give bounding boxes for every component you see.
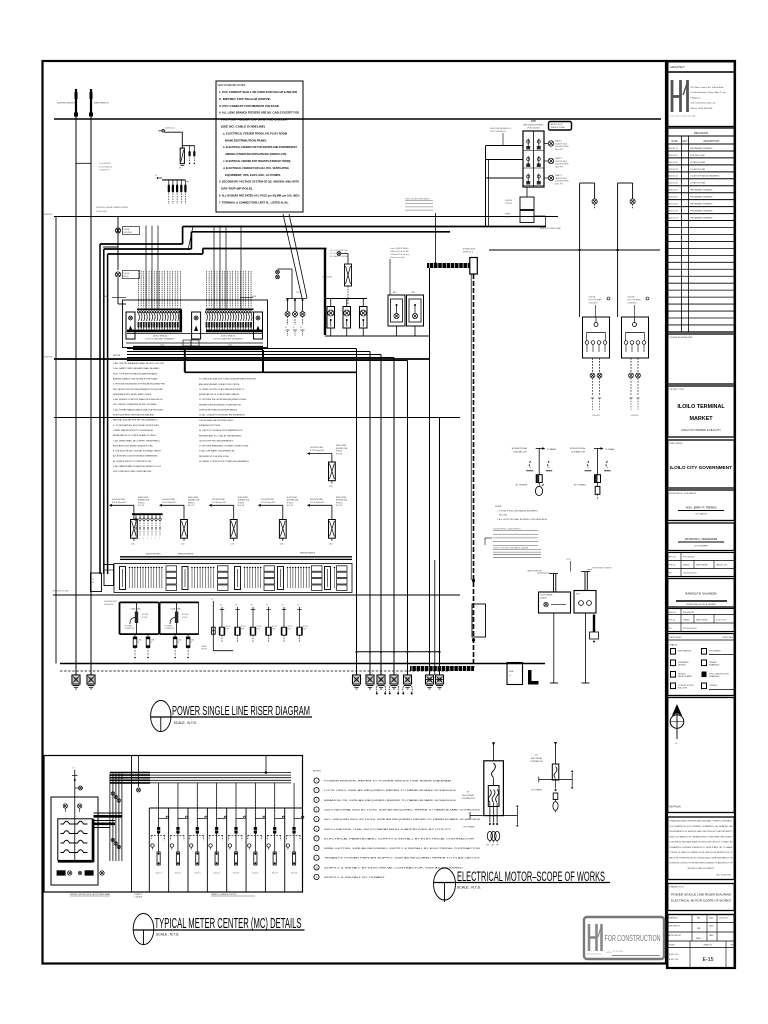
svg-text:(SEE RISER DIAGRAM No. 2): (SEE RISER DIAGRAM No. 2) — [490, 127, 512, 130]
svg-text:ILOILO CITY GOVERNMENT: ILOILO CITY GOVERNMENT — [670, 465, 732, 470]
svg-text:50mm PVC: 50mm PVC — [555, 166, 564, 168]
svg-text:BUSEY RISER: BUSEY RISER — [188, 497, 199, 499]
svg-text:CONTRACTOR: CONTRACTOR — [530, 760, 543, 763]
svg-text:BY ELECTRICAL: BY ELECTRICAL — [512, 447, 528, 450]
svg-text:(EXISTING): (EXISTING) — [124, 232, 133, 234]
svg-text:SMART 2: SMART 2 — [555, 157, 562, 160]
svg-text:6. COORDINATE ALL ELECTRICAL W: 6. COORDINATE ALL ELECTRICAL WORKS WITH — [113, 424, 159, 427]
svg-text:GEN SET 500 kW: GEN SET 500 kW — [551, 124, 564, 126]
svg-text:1000 kVA: 1000 kVA — [589, 296, 597, 299]
svg-text:6: 6 — [316, 829, 317, 831]
svg-text:WIRE GUTTER, SIZE AS REQUIRED,: WIRE GUTTER, SIZE AS REQUIRED, SUPPLY & … — [324, 847, 481, 850]
svg-text:LAND OWNER: LAND OWNER — [670, 442, 683, 445]
svg-text:DATE: DATE — [709, 925, 714, 928]
svg-text:BUSEY RISER: BUSEY RISER — [287, 497, 298, 499]
svg-text:4: 4 — [316, 809, 317, 811]
svg-text:IN 50mm PVC: IN 50mm PVC — [104, 604, 115, 606]
svg-text:2022.12.09: 2022.12.09 — [668, 204, 677, 206]
svg-text:LIGHTING: LIGHTING — [505, 200, 513, 202]
svg-text:BUSEY RISER: BUSEY RISER — [336, 497, 347, 499]
svg-text:6: 6 — [155, 538, 156, 540]
svg-text:GRY ROP (4P POLE).: GRY ROP (4P POLE). — [221, 187, 253, 191]
svg-text:3P 4W+G: 3P 4W+G — [336, 502, 343, 504]
svg-text:DATE: DATE — [709, 934, 714, 937]
svg-text:7: 7 — [159, 538, 160, 540]
svg-text:100AT: 100AT — [138, 639, 142, 642]
svg-text:AND NEW FEEDER CONNECTION POIN: AND NEW FEEDER CONNECTION POINTS. — [199, 383, 240, 386]
svg-text:GF: GF — [155, 175, 157, 177]
svg-text:(BUS DUCT RISER 1600A): (BUS DUCT RISER 1600A) — [540, 227, 561, 230]
svg-text:AMONG OTHER SM APPLIANCES (FRO: AMONG OTHER SM APPLIANCES (FROM LV-B). — [225, 152, 287, 156]
svg-text:SP: SP — [285, 327, 287, 329]
svg-text:ISO. GROUND BUS W/ LUGS, SIZE: ISO. GROUND BUS W/ LUGS, SIZE AS REQUIRE… — [324, 818, 481, 821]
svg-text:RAYMOND C. HERNANDEZ: RAYMOND C. HERNANDEZ — [685, 538, 718, 541]
svg-text:-: - — [685, 197, 686, 199]
svg-text:a r c h i t e c t s + d e s i: a r c h i t e c t s + d e s i g n l a b — [670, 115, 696, 118]
svg-text:-: - — [685, 162, 686, 164]
svg-text:E-15: E-15 — [703, 957, 714, 963]
svg-text:15HP: 15HP — [303, 629, 306, 631]
svg-text:MB: MB — [697, 928, 701, 930]
svg-text:5. ALL POWER PANELBOARDS SHALL: 5. ALL POWER PANELBOARDS SHALL BE PROVID… — [113, 408, 164, 411]
svg-text:WITH EQUIPMENT GROUND BUS BAR: WITH EQUIPMENT GROUND BUS BAR AND — [113, 414, 155, 417]
svg-text:SCHEMATIC: SCHEMATIC — [678, 661, 690, 664]
svg-text:(BUSWAY) 225A: (BUSWAY) 225A — [188, 499, 199, 502]
svg-text:2022.09.12: 2022.09.12 — [668, 148, 677, 150]
svg-text:PRELIMINARY DRAWING: PRELIMINARY DRAWING — [690, 147, 713, 150]
svg-text:BUSEY RISER: BUSEY RISER — [336, 445, 347, 447]
svg-text:FEEDER RISER B: FEEDER RISER B — [300, 553, 316, 555]
svg-text:SCALE : N.T.S.: SCALE : N.T.S. — [174, 721, 197, 725]
svg-text:MOTORS.: MOTORS. — [499, 515, 508, 517]
svg-text:90 C IN 100mm PVC: 90 C IN 100mm PVC — [261, 502, 276, 504]
svg-text:DESCRIPTION: DESCRIPTION — [704, 141, 720, 143]
svg-text:12. PROVIDE PULLBOXES AS REQUI: 12. PROVIDE PULLBOXES AS REQUIRED FOR AL… — [199, 398, 248, 401]
svg-text:Tenant 4: Tenant 4 — [214, 872, 220, 875]
svg-text:ELECTRICAL PANELBOARD, SUPPLY: ELECTRICAL PANELBOARD, SUPPLY & INSTALL … — [324, 837, 475, 840]
svg-text:10. CHECK ACTUAL SITE CONDITIO: 10. CHECK ACTUAL SITE CONDITIONS BETWEEN… — [199, 378, 256, 381]
svg-text:LV SWITCHGEAR: LV SWITCHGEAR — [540, 594, 553, 597]
svg-text:SP1: SP1 — [487, 845, 490, 847]
svg-text:NOTES:: NOTES: — [313, 771, 322, 773]
svg-text:POWER FEEDER, REFER TO POWER S: POWER FEEDER, REFER TO POWER SINGLE LINE… — [324, 780, 451, 783]
svg-text:DRAWING TITLE:: DRAWING TITLE: — [670, 886, 685, 889]
svg-text:100AT: 100AT — [178, 639, 182, 642]
svg-text:in 100mm PVC: in 100mm PVC — [99, 170, 111, 172]
svg-text:14. USE 3.5% VOLTAGE DROP MAXI: 14. USE 3.5% VOLTAGE DROP MAXIMUM FOR — [199, 429, 243, 432]
svg-text:DATE: DATE — [709, 917, 714, 920]
svg-text:-: - — [685, 155, 686, 157]
svg-text:3: 3 — [316, 800, 317, 802]
svg-text:TRANSFORMER PAD: TRANSFORMER PAD — [527, 570, 543, 573]
svg-text:ON 15kV LINE: ON 15kV LINE — [96, 211, 106, 213]
svg-text:2 sets 500 MCM: 2 sets 500 MCM — [99, 162, 111, 165]
svg-text:FOR COMPLETE LOAD COMPUTATIONS: FOR COMPLETE LOAD COMPUTATIONS. — [113, 470, 152, 473]
svg-text:SCALE : N.T.S.: SCALE : N.T.S. — [457, 886, 481, 890]
svg-text:3 SETS OF 4-500 MCM THHN CABLE: 3 SETS OF 4-500 MCM THHN CABLES+1-250MCM — [493, 547, 529, 550]
svg-text:FOR CONSTRUCTION: FOR CONSTRUCTION — [605, 933, 661, 943]
svg-text:ELECTRICAL: ELECTRICAL — [531, 757, 542, 760]
svg-text:3 sets 4-500MCM THHN in: 3 sets 4-500MCM THHN in — [390, 247, 409, 250]
svg-text:2: 2 — [316, 790, 317, 792]
svg-text:EQUIPMENT, UPS, ELEV, ESC, LG: EQUIPMENT, UPS, ELEV, ESC, LG PUMPS. — [225, 173, 281, 177]
svg-text:DRAWINGS: DRAWINGS — [709, 664, 720, 667]
svg-text:2022.12.16: 2022.12.16 — [668, 211, 677, 213]
svg-text:NEUTRAL BUS BAR PER PEC REQUIR: NEUTRAL BUS BAR PER PEC REQUIREMENTS. — [113, 419, 159, 422]
svg-text:INSULATED 600V RATED UNLESS NO: INSULATED 600V RATED UNLESS NOTED. — [113, 444, 154, 447]
svg-text:-: - — [685, 218, 686, 220]
svg-text:PRELIMINARY DRAWING: PRELIMINARY DRAWING — [690, 217, 713, 220]
svg-text:4: 4 — [147, 538, 148, 540]
svg-text:EXISTING: EXISTING — [44, 214, 53, 216]
svg-text:4-350 MCM THHN: 4-350 MCM THHN — [261, 499, 274, 501]
svg-text:15. PROVIDE EMERGENCY POWER CO: 15. PROVIDE EMERGENCY POWER CONNECTIONS — [199, 446, 249, 448]
svg-text:3∅: 3∅ — [282, 604, 285, 607]
svg-text:Philippines: Philippines — [691, 97, 701, 99]
svg-text:3 SETS 4-500 MCM THHN CABLES: 3 SETS 4-500 MCM THHN CABLES — [405, 198, 429, 201]
svg-text:3. PROVIDE GROUNDING SYSTEM AS: 3. PROVIDE GROUNDING SYSTEM AS REQUIRED … — [113, 383, 165, 386]
svg-text:100AT, 3P, 30kA: 100AT, 3P, 30kA — [555, 160, 567, 163]
svg-text:W/ G. KIT: W/ G. KIT — [287, 505, 294, 507]
svg-text:SUPPLY & INSTALL BY TENANT: SUPPLY & INSTALL BY TENANT — [324, 876, 386, 879]
svg-text:RESISTANCE NOT MORE THAN 5 OHM: RESISTANCE NOT MORE THAN 5 OHMS. — [113, 393, 152, 396]
svg-text:LOCATION PLAN: LOCATION PLAN — [690, 168, 706, 171]
svg-text:FEEDER RISER A: FEEDER RISER A — [178, 553, 194, 556]
svg-text:4m Cs 3-500 MCM THHN: 4m Cs 3-500 MCM THHN — [330, 250, 348, 252]
svg-text:2P: 2P — [191, 642, 193, 644]
svg-text:DATE ISSUED: DATE ISSUED — [696, 619, 709, 622]
svg-text:3∅: 3∅ — [211, 598, 214, 601]
svg-text:90 C IN 100mm PVC: 90 C IN 100mm PVC — [162, 502, 177, 504]
svg-text:TENANT'S: TENANT'S — [135, 893, 143, 896]
svg-text:-: - — [685, 211, 686, 213]
svg-text:Tenant 1: Tenant 1 — [156, 872, 162, 875]
svg-text:90 C IN 100mm PVC: 90 C IN 100mm PVC — [112, 502, 127, 504]
svg-text:(100A) (100AT): (100A) (100AT) — [131, 608, 142, 611]
svg-text:LOCATION PLAN: LOCATION PLAN — [690, 161, 706, 164]
svg-text:PROFESSIONAL ELECTRICAL ENGINE: PROFESSIONAL ELECTRICAL ENGINEER — [686, 603, 716, 606]
svg-text:INSTALLATION OF CONDUIT AND CA: INSTALLATION OF CONDUIT AND CABLES. — [199, 393, 240, 396]
svg-text:11: 11 — [316, 877, 318, 879]
svg-text:2022.08.15: 2022.08.15 — [719, 918, 728, 920]
svg-text:FEEDER RUNS EXCEEDING 30 METER: FEEDER RUNS EXCEEDING 30 METERS OR — [199, 404, 241, 406]
svg-text:100AT, 3P, 30kA: 100AT, 3P, 30kA — [555, 177, 567, 180]
svg-text:OUTLET PER PEC REQUIREMENTS.: OUTLET PER PEC REQUIREMENTS. — [199, 440, 234, 442]
svg-text:(EXISTING SERVICE): (EXISTING SERVICE) — [57, 103, 76, 105]
svg-text:AMPERE CAPACITY AS SHOWN IN TH: AMPERE CAPACITY AS SHOWN IN THE PLANS. — [113, 377, 158, 380]
svg-text:AUTHOR OF SAID DOCUMENTS.: AUTHOR OF SAID DOCUMENTS. — [688, 867, 715, 870]
svg-text:2P: 2P — [151, 642, 153, 644]
svg-text:PROJECT TITLE: PROJECT TITLE — [670, 389, 685, 391]
svg-text:(4 POS TO SWBD A BUS TIE BREAK: (4 POS TO SWBD A BUS TIE BREAKER) — [146, 338, 175, 341]
svg-text:TO MC: TO MC — [446, 668, 452, 670]
svg-text:5: 5 — [316, 819, 317, 821]
svg-text:2/F Palma Centre, A.V. Tañedo: 2/F Palma Centre, A.V. Tañedo Blvd. — [691, 86, 725, 89]
svg-text:6. ALL BUSBAR ARE RATED AS 1 P: 6. ALL BUSBAR ARE RATED AS 1 POLE per SQ… — [219, 194, 300, 198]
svg-text:ILOILO CITY: ILOILO CITY — [716, 620, 727, 622]
svg-text:8: 8 — [316, 848, 317, 850]
svg-text:123-456-789-000: 123-456-789-000 — [683, 573, 697, 575]
svg-text:ATS 100A: ATS 100A — [142, 613, 148, 616]
svg-text:HON. JERRY P. TREÑAS: HON. JERRY P. TREÑAS — [686, 505, 717, 510]
svg-text:500kVA: 500kVA — [124, 228, 130, 231]
svg-text:2022.12.23: 2022.12.23 — [668, 218, 677, 220]
svg-text:& 1x250 MCM (G): & 1x250 MCM (G) — [99, 166, 112, 168]
svg-text:2022.10.22: 2022.10.22 — [668, 169, 677, 171]
svg-text:PRELIMINARY DRAWING: PRELIMINARY DRAWING — [690, 203, 713, 206]
svg-text:DRY TYPE XFMR: DRY TYPE XFMR — [589, 300, 603, 302]
svg-text:b. ELECTRICAL FEEDER FOR THE W: b. ELECTRICAL FEEDER FOR THE WATERS AND … — [223, 145, 297, 149]
svg-text:GEN STANDARD NOTES:: GEN STANDARD NOTES: — [218, 84, 247, 87]
svg-text:2022.11.04: 2022.11.04 — [668, 176, 677, 178]
svg-text:c. ELECTRICAL FEEDER FOR TENAN: c. ELECTRICAL FEEDER FOR TENANTS (FROM B… — [223, 159, 291, 163]
svg-text:CONTRACTOR: CONTRACTOR — [461, 797, 475, 800]
svg-text:14HP: 14HP — [288, 629, 291, 631]
svg-text:12HP: 12HP — [257, 629, 260, 631]
svg-text:3: 3 — [143, 538, 144, 540]
svg-text:FOR WHICH THEY ARE MADE IS EXE: FOR WHICH THEY ARE MADE IS EXECUTED OR N… — [670, 841, 734, 844]
svg-text:7: 7 — [316, 838, 317, 840]
svg-text:4. ALL FEEDER CONDUITS SHALL B: 4. ALL FEEDER CONDUITS SHALL BE SCHEDULE… — [113, 398, 163, 401]
svg-text:LOCATION PLAN: LOCATION PLAN — [690, 182, 706, 185]
svg-text:2022.11.25: 2022.11.25 — [668, 190, 677, 192]
svg-text:1: 1 — [316, 781, 317, 783]
svg-text:(BUSWAY) 225A: (BUSWAY) 225A — [336, 447, 347, 450]
svg-text:2000A 3P: 2000A 3P — [540, 597, 547, 600]
svg-text:2. ALL OF MOTORS SHALL BE WIRE: 2. ALL OF MOTORS SHALL BE WIRED & GROUND… — [497, 518, 548, 521]
svg-text:(BUSWAY) 225A: (BUSWAY) 225A — [287, 499, 298, 502]
svg-text:DATE ISSUED: DATE ISSUED — [696, 564, 709, 567]
svg-text:TARLAC CITY: TARLAC CITY — [716, 564, 728, 567]
svg-text:PEE 0006789: PEE 0006789 — [683, 612, 694, 614]
svg-text:(METER CENTER): (METER CENTER) — [146, 554, 161, 556]
svg-text:225A: 225A — [280, 543, 284, 546]
svg-text:4-350 MCM THHN: 4-350 MCM THHN — [310, 447, 323, 449]
svg-text:CONTRACTOR: CONTRACTOR — [571, 451, 586, 454]
svg-text:-: - — [685, 148, 686, 150]
svg-text:MOTOR: MOTOR — [288, 626, 293, 628]
svg-text:(BUSWAY) 225A: (BUSWAY) 225A — [138, 499, 149, 502]
svg-text:DESIGN: DESIGN — [678, 665, 686, 667]
svg-text:GENSET: GENSET — [202, 646, 208, 648]
svg-text:16. REFER TO SPECS FOR OTHER R: 16. REFER TO SPECS FOR OTHER REQUIREMENT… — [199, 461, 250, 463]
svg-text:METER CENTER (MC) LAYOUT AND M: METER CENTER (MC) LAYOUT AND MAIN — [70, 893, 111, 896]
svg-text:WITH MORE THAN 360 DEGREE BEND: WITH MORE THAN 360 DEGREE BENDS. — [199, 409, 238, 412]
svg-text:CITY ENGINEER: CITY ENGINEER — [694, 546, 709, 548]
svg-text:-: - — [685, 190, 686, 192]
svg-text:ISSUED: ISSUED — [683, 565, 690, 567]
svg-text:CONTROL: CONTROL — [505, 203, 512, 205]
svg-text:PEC LATEST EDITION REQUIREMENT: PEC LATEST EDITION REQUIREMENTS W/ GROUN… — [113, 388, 163, 391]
svg-text:W/ G. KIT: W/ G. KIT — [138, 505, 145, 507]
svg-text:ELECTRICAL: ELECTRICAL — [462, 794, 474, 797]
svg-text:-: - — [722, 928, 723, 930]
svg-text:TO PANEL: TO PANEL — [605, 448, 616, 451]
svg-text:90 C IN 100mm PVC: 90 C IN 100mm PVC — [310, 502, 325, 504]
svg-text:SEC. 33 R.A. 9266: SEC. 33 R.A. 9266 — [716, 874, 731, 877]
svg-text:W/ G. KIT: W/ G. KIT — [238, 505, 245, 507]
svg-text:DATE: DATE — [672, 140, 678, 143]
svg-text:1. TYPICAL FOR ALL MECHANICAL: 1. TYPICAL FOR ALL MECHANICAL EQUIPMENT — [497, 510, 539, 513]
svg-text:RMB: RMB — [696, 938, 701, 940]
svg-text:(STAND BY POWER): (STAND BY POWER) — [551, 126, 566, 129]
svg-text:POWER RISER TO GENSET: POWER RISER TO GENSET — [592, 568, 612, 570]
svg-text:MOTOR: MOTOR — [226, 626, 231, 628]
svg-text:a. ELECTRICAL FEEDER FROM LV-B: a. ELECTRICAL FEEDER FROM LV-B TO BY ROO… — [223, 131, 288, 135]
svg-text:Tenant 5: Tenant 5 — [233, 872, 239, 875]
svg-text:5. SECONDARY VOLTAGE SYSTEM OF: 5. SECONDARY VOLTAGE SYSTEM OF 3∅, 400/2… — [219, 180, 299, 184]
svg-text:(4 POS TO SWBD B BUS TIE BREAK: (4 POS TO SWBD B BUS TIE BREAKER) — [214, 338, 243, 341]
svg-text:11. VERIFY ROUTE OF ALL FEEDER: 11. VERIFY ROUTE OF ALL FEEDERS PRIOR TO — [199, 388, 245, 391]
svg-text:3∅: 3∅ — [235, 604, 238, 607]
svg-text:(SUB LV SWBD B): (SUB LV SWBD B) — [221, 336, 236, 338]
svg-text:4-500 MCM: 4-500 MCM — [592, 415, 600, 417]
svg-text:LV CB: LV CB — [566, 559, 571, 561]
svg-text:225A: 225A — [231, 543, 235, 546]
svg-text:CONTRACTOR: CONTRACTOR — [513, 451, 528, 454]
svg-text:FEEDERS AND 5% TOTAL AT THE FA: FEEDERS AND 5% TOTAL AT THE FARTHEST — [199, 434, 242, 437]
svg-text:SMART 3: SMART 3 — [555, 174, 562, 177]
svg-text:50mm PVC: 50mm PVC — [555, 149, 564, 151]
svg-text:JOINTS SHALL BE PROVIDED WITH: JOINTS SHALL BE PROVIDED WITH — [199, 419, 233, 422]
svg-text:2x(80mm) PVC As ind. AS +: 2x(80mm) PVC As ind. AS + — [390, 250, 409, 253]
svg-text:TO ALL LIFE SAFETY EQUIPMENT A: TO ALL LIFE SAFETY EQUIPMENT AS — [199, 450, 235, 453]
svg-text:TO: TO — [92, 579, 95, 581]
svg-text:mail: h1@architectslab.com: mail: h1@architectslab.com — [691, 102, 716, 105]
svg-text:kW-hr METER, USE 1M (COMPATIBL: kW-hr METER, USE 1M (COMPATIBLE) & APPRO… — [324, 828, 452, 831]
svg-text:100AT: 100AT — [191, 639, 195, 642]
svg-text:07.12.2023: 07.12.2023 — [613, 951, 624, 953]
svg-text:7. ALL WIRES SHALL BE COPPER,: 7. ALL WIRES SHALL BE COPPER, THHN/THWN-… — [113, 439, 161, 442]
svg-text:(100kVA trafo): (100kVA trafo) — [165, 127, 176, 130]
svg-text:PRELIMINARY DRAWING: PRELIMINARY DRAWING — [690, 210, 713, 213]
svg-text:50mm PVC: 50mm PVC — [555, 183, 564, 185]
svg-text:Tenant 7: Tenant 7 — [272, 872, 278, 875]
svg-text:REG. No.: REG. No. — [669, 557, 677, 559]
svg-text:MOTOR: MOTOR — [241, 626, 246, 628]
svg-text:2. METRIC TOP 50mmØ ABOVE.: 2. METRIC TOP 50mmØ ABOVE. — [219, 97, 271, 101]
svg-text:TA1: TA1 — [491, 844, 494, 847]
svg-text:POWER SINGLE LINE RISER DIAGRA: POWER SINGLE LINE RISER DIAGRAM — [671, 894, 731, 897]
svg-text:4x150 MCM THHN: 4x150 MCM THHN — [555, 164, 569, 166]
svg-text:13HP: 13HP — [272, 629, 275, 631]
svg-text:SMART 1: SMART 1 — [555, 140, 562, 143]
svg-text:PTR No.: PTR No. — [669, 565, 676, 567]
svg-text:BY: BY — [535, 755, 538, 757]
svg-text:MAIN DISTRIBUTION PANEL: MAIN DISTRIBUTION PANEL — [225, 138, 267, 142]
svg-text:TIN: TIN — [669, 628, 673, 630]
svg-text:BY OTHERS: BY OTHERS — [574, 485, 586, 487]
svg-text:Tel/Fax: (045) 982-0438: Tel/Fax: (045) 982-0438 — [691, 108, 714, 110]
svg-text:(SEE NO. CABLE GUIDELINE): (SEE NO. CABLE GUIDELINE) — [221, 125, 265, 129]
svg-text:(NEW SERVICE): (NEW SERVICE) — [94, 103, 109, 105]
svg-text:IN WHOLE, WITHOUT THE WRITTEN: IN WHOLE, WITHOUT THE WRITTEN CONSENT OF… — [670, 862, 733, 865]
svg-text:987-654-321-000: 987-654-321-000 — [683, 628, 697, 630]
svg-text:AND FOR OTHER PROJECTS OR BUIL: AND FOR OTHER PROJECTS OR BUILDINGS, WHE… — [670, 856, 734, 859]
svg-text:N: N — [676, 743, 678, 745]
svg-text:2022.12.02: 2022.12.02 — [668, 197, 677, 199]
svg-text:STATUS:: STATUS: — [670, 644, 679, 647]
svg-text:A.SNT : 400: A.SNT : 400 — [669, 953, 678, 956]
svg-text:TENDER: TENDER — [709, 662, 717, 664]
svg-text:RANDOLF B. SALANEDA: RANDOLF B. SALANEDA — [685, 592, 716, 596]
svg-text:SHEET No.: SHEET No. — [703, 945, 713, 947]
svg-text:9. ALL PANELBOARD SCHEDULES RE: 9. ALL PANELBOARD SCHEDULES REFER TO E-1… — [113, 465, 162, 468]
svg-text:1x100mm PVC As ind. spare: 1x100mm PVC As ind. spare — [390, 253, 410, 256]
svg-text:FOR CONTINUATION: FOR CONTINUATION — [490, 130, 507, 133]
svg-text:-: - — [731, 957, 732, 960]
svg-text:3∅: 3∅ — [297, 604, 300, 607]
svg-text:REV: REV — [683, 141, 688, 143]
svg-text:13.8kV/400V: 13.8kV/400V — [589, 303, 599, 305]
svg-text:NOTES:: NOTES: — [495, 506, 502, 508]
svg-text:architects+design lab: architects+design lab — [586, 953, 601, 956]
svg-text:ILOILO TERMINAL: ILOILO TERMINAL — [677, 404, 725, 410]
svg-text:2P: 2P — [138, 642, 140, 644]
svg-text:Tenant 2: Tenant 2 — [175, 872, 181, 875]
svg-text:KEYPLAN: KEYPLAN — [670, 806, 681, 809]
svg-text:EXISTING LV LINE: EXISTING LV LINE — [53, 591, 69, 593]
svg-text:4x150 MCM THHN: 4x150 MCM THHN — [555, 181, 569, 183]
svg-text:(Feeder in duct bank): (Feeder in duct bank) — [390, 256, 405, 259]
svg-text:3P 4W+G 400/230V: 3P 4W+G 400/230V — [527, 128, 540, 130]
svg-text:MC: MC — [92, 582, 95, 584]
svg-text:10: 10 — [315, 867, 317, 869]
svg-text:3P 4W+G: 3P 4W+G — [287, 502, 294, 504]
svg-text:4-100 MCM THHN: 4-100 MCM THHN — [104, 601, 116, 603]
svg-text:TIN: TIN — [669, 573, 673, 575]
svg-text:BRANCH CB, SIZE AS REQUIRED RE: BRANCH CB, SIZE AS REQUIRED REFER TO PAN… — [324, 799, 457, 802]
svg-text:TO PANEL: TO PANEL — [547, 448, 558, 451]
svg-text:BY TENANT: BY TENANT — [125, 625, 133, 628]
svg-text:225A: 225A — [131, 543, 135, 546]
svg-text:90 C IN 100mm PVC: 90 C IN 100mm PVC — [212, 502, 227, 504]
svg-text:LOADSIDE: LOADSIDE — [135, 896, 143, 899]
svg-text:SITE DEV. PLAN: SITE DEV. PLAN — [690, 154, 705, 157]
svg-text:MARKET: MARKET — [689, 416, 713, 422]
svg-text:100% NEUTRAL BUS BY LUGS, SIZE: 100% NEUTRAL BUS BY LUGS, SIZE AS REQUIR… — [324, 808, 481, 811]
svg-text:APPROVED BY: HON. MAYOR: APPROVED BY: HON. MAYOR — [670, 492, 697, 495]
svg-text:BUSWAY 1600A: BUSWAY 1600A — [463, 248, 476, 251]
svg-text:11HP: 11HP — [241, 629, 244, 631]
svg-text:(MAIN DISTRIBUTION PANEL): (MAIN DISTRIBUTION PANEL) — [523, 124, 544, 127]
svg-text:Tenant 3: Tenant 3 — [194, 872, 200, 875]
svg-text:ISSUED: ISSUED — [683, 620, 690, 622]
svg-text:225A: 225A — [329, 485, 333, 488]
svg-text:4-500 MCM: 4-500 MCM — [631, 415, 639, 417]
svg-text:-: - — [685, 169, 686, 171]
svg-text:d. ELECTRICAL FEEDER FOR AHU,: d. ELECTRICAL FEEDER FOR AHU, FCU, VENTI… — [223, 166, 289, 170]
svg-text:DRY TYPE XFMR: DRY TYPE XFMR — [628, 300, 642, 302]
svg-text:ELECTRICAL MOTOR–SCOPE OF WORK: ELECTRICAL MOTOR–SCOPE OF WORKS — [457, 869, 605, 884]
svg-text:3P 4W+G: 3P 4W+G — [336, 451, 343, 453]
svg-text:60A: 60A — [179, 167, 182, 170]
svg-text:St. San Sebastian Village, Mai: St. San Sebastian Village, Main P. City — [691, 91, 727, 94]
svg-text:APPROVED BY: APPROVED BY — [669, 934, 682, 937]
svg-text:BUSEY RISER: BUSEY RISER — [138, 497, 149, 499]
svg-text:DRAWN BY: DRAWN BY — [669, 917, 679, 920]
svg-text:2P 230V: 2P 230V — [182, 617, 187, 619]
svg-text:5: 5 — [151, 538, 152, 540]
svg-text:ATS 100A: ATS 100A — [182, 613, 188, 616]
svg-text:2P 230V: 2P 230V — [142, 617, 147, 619]
svg-text:90 C IN 100mm PVC: 90 C IN 100mm PVC — [310, 450, 325, 452]
svg-text:3∅: 3∅ — [251, 604, 254, 607]
svg-text:PTR No.: PTR No. — [669, 620, 676, 622]
svg-text:MOTOR: MOTOR — [272, 626, 277, 628]
svg-text:2P: 2P — [178, 642, 180, 644]
svg-text:(RISER No. 1): (RISER No. 1) — [463, 252, 474, 254]
